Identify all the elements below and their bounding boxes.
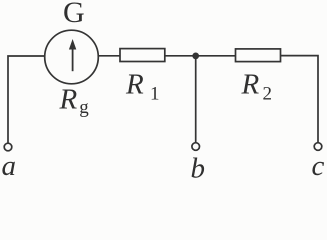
terminal b circle xyxy=(192,143,200,151)
svg-text:1: 1 xyxy=(150,84,160,105)
wire left: rail to terminal a xyxy=(8,56,45,143)
terminal c circle xyxy=(314,143,322,151)
resistor R1 body xyxy=(120,49,165,62)
current source G circle xyxy=(45,30,99,84)
terminal a circle xyxy=(4,143,12,151)
source arrow xyxy=(69,39,76,71)
wire right: R2 to terminal c xyxy=(281,56,319,143)
svg-text:b: b xyxy=(191,152,206,184)
svg-text:c: c xyxy=(312,150,325,182)
svg-text:a: a xyxy=(2,150,17,182)
wire: source to resistor R1 xyxy=(98,55,120,57)
wire: node b down to terminal b xyxy=(195,56,197,143)
svg-text:2: 2 xyxy=(263,84,273,105)
svg-text:G: G xyxy=(63,0,85,29)
svg-text:g: g xyxy=(79,97,89,118)
wire: R1 to R2 through node b xyxy=(165,55,236,57)
node b junction dot xyxy=(192,53,199,60)
svg-text:R: R xyxy=(241,68,260,100)
svg-text:R: R xyxy=(125,68,144,100)
svg-text:R: R xyxy=(59,84,78,116)
resistor R2 body xyxy=(236,49,281,62)
